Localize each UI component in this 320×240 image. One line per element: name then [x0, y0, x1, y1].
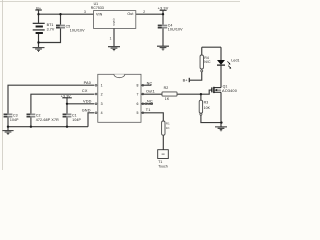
wire U1 out to +3.3V node [136, 13, 163, 15]
wire source to ground [220, 92, 222, 126]
svg-text:GND: GND [82, 108, 91, 112]
svg-text:104P: 104P [72, 118, 81, 122]
node VDD tap [66, 103, 68, 105]
wire C5 bottom to battery node [39, 28, 61, 43]
svg-text:8: 8 [136, 84, 138, 88]
svg-text:+3.3V: +3.3V [61, 94, 71, 98]
svg-text:D: D [113, 23, 115, 27]
svg-text:CX: CX [82, 89, 88, 93]
svg-text:C3: C3 [13, 113, 18, 117]
svg-text:Touch: Touch [158, 164, 168, 168]
capacitor C4 [158, 25, 167, 27]
wire GND pin4 [88, 113, 94, 127]
svg-text:+3.3V: +3.3V [158, 6, 169, 10]
ground (C4) [157, 46, 169, 50]
pin 1 [95, 84, 97, 86]
svg-text:NC: NC [147, 81, 153, 85]
wire R3 bottom to source rail [201, 115, 222, 122]
wire C4 bottom stem [162, 28, 164, 46]
svg-text:B+: B+ [36, 6, 42, 10]
svg-text:Out2: Out2 [144, 102, 153, 106]
svg-text:PA0: PA0 [84, 81, 91, 85]
resistor R1 [162, 121, 165, 135]
ground (Q1 source) [215, 127, 227, 131]
svg-text:RC7533: RC7533 [91, 6, 104, 10]
node +3.3V stub left [62, 98, 72, 104]
IC U2 8-pin [98, 74, 141, 122]
node battery top [37, 13, 39, 15]
wire C1 top stem [66, 104, 68, 114]
node rail left [7, 126, 9, 128]
svg-text:10K: 10K [204, 106, 211, 110]
pin 5 [142, 112, 144, 114]
touch pad T1 [158, 150, 169, 159]
capacitor C5 [56, 25, 65, 27]
LED Led1 [217, 60, 225, 65]
wire R4 top [201, 47, 203, 55]
svg-text:3.7V: 3.7V [47, 27, 55, 31]
battery BT1 [33, 23, 45, 33]
wire R3 top tap [200, 94, 202, 100]
wire C1 bottom stem [66, 117, 68, 127]
svg-text:Q1: Q1 [223, 84, 228, 88]
svg-text:R3: R3 [204, 100, 209, 104]
wire VDD [67, 103, 94, 105]
ground (battery) [33, 48, 45, 52]
pin 4 [95, 112, 97, 114]
pin 8 [142, 84, 144, 86]
ground (U1) [108, 47, 120, 51]
regulator U1 [94, 11, 136, 29]
svg-text:10U/10V: 10U/10V [168, 28, 183, 32]
svg-text:5: 5 [136, 111, 138, 115]
wire LED cathode to drain [220, 66, 222, 88]
wire R2 to gate [177, 90, 212, 94]
node battery bottom [37, 41, 39, 43]
svg-text:2: 2 [101, 92, 103, 96]
svg-text:7: 7 [136, 92, 138, 96]
svg-text:104P: 104P [10, 118, 19, 122]
svg-text:B+: B+ [183, 78, 189, 82]
wire R1 to touch pad [162, 135, 164, 150]
wire C5 top stem [60, 14, 62, 25]
node C1 bottom [66, 126, 68, 128]
wire PA0 to C3 [8, 85, 94, 114]
svg-text:Out: Out [127, 12, 133, 16]
wire LED top rail [202, 46, 221, 48]
node C5 tap [59, 13, 61, 15]
resistor R2 [162, 92, 177, 96]
wire pin6 NC stub [141, 103, 153, 105]
wire bottom rail [8, 126, 88, 128]
wire pin5 T1 to R1 [141, 113, 163, 121]
svg-text:10U/10V: 10U/10V [70, 28, 85, 32]
wire C4 top stem [162, 14, 164, 25]
svg-text:N/C: N/C [204, 60, 211, 64]
svg-text:R1: R1 [166, 122, 170, 126]
svg-text:R2: R2 [164, 86, 169, 90]
node gate R3 tap [200, 93, 202, 95]
node +3.3V out [162, 13, 164, 15]
svg-text:VDD: VDD [83, 99, 92, 103]
svg-text:AO3400: AO3400 [222, 89, 237, 93]
svg-text:C2: C2 [36, 113, 41, 117]
node source rail [220, 121, 222, 123]
node +3.3V stub [160, 10, 167, 14]
resistor R4 [200, 55, 203, 69]
svg-text:2: 2 [143, 10, 145, 14]
svg-text:1: 1 [110, 36, 112, 40]
pin 6 [142, 103, 144, 105]
wire pin7 Out1 to R2 [141, 93, 162, 95]
wire U1 gnd pin [113, 28, 115, 46]
svg-text:3: 3 [84, 10, 86, 14]
wire LED anode [220, 47, 222, 60]
wire battery bottom stem [38, 34, 40, 47]
wire B+ rail to VIN [39, 13, 95, 15]
node B+ port bar [188, 78, 190, 82]
svg-text:Led1: Led1 [231, 58, 239, 62]
svg-text:1K: 1K [165, 97, 170, 101]
ground (bottom left) [2, 131, 13, 135]
node B+ stub [35, 10, 42, 14]
svg-text:1: 1 [101, 84, 103, 88]
svg-text:T1: T1 [146, 108, 151, 112]
wire C2 bottom stem [30, 117, 32, 127]
pin 3 [95, 103, 97, 105]
capacitor C3 [4, 114, 13, 116]
resistor R3 [199, 100, 202, 113]
svg-text:6: 6 [136, 102, 138, 106]
svg-text:Out1: Out1 [146, 89, 155, 93]
capacitor C1 [63, 114, 72, 116]
wire battery top stem [38, 14, 40, 23]
svg-text:C1: C1 [72, 113, 77, 117]
svg-text:VIN: VIN [96, 13, 103, 17]
wire pin8 NC stub [141, 84, 151, 86]
wire C3 bottom stem [7, 117, 9, 130]
node C2 bottom [30, 126, 32, 128]
sheet border [0, 0, 240, 170]
svg-text:472-68P X7R: 472-68P X7R [36, 118, 59, 122]
svg-text:3: 3 [101, 102, 103, 106]
wire R4 bottom to B+ port [189, 72, 201, 80]
svg-text:4: 4 [101, 111, 103, 115]
transistor Q1 AO3400 [212, 87, 221, 93]
capacitor C2 [27, 114, 36, 116]
pin 2 [95, 93, 97, 95]
pin 7 [142, 93, 144, 95]
wire CX to C2 [31, 94, 94, 114]
